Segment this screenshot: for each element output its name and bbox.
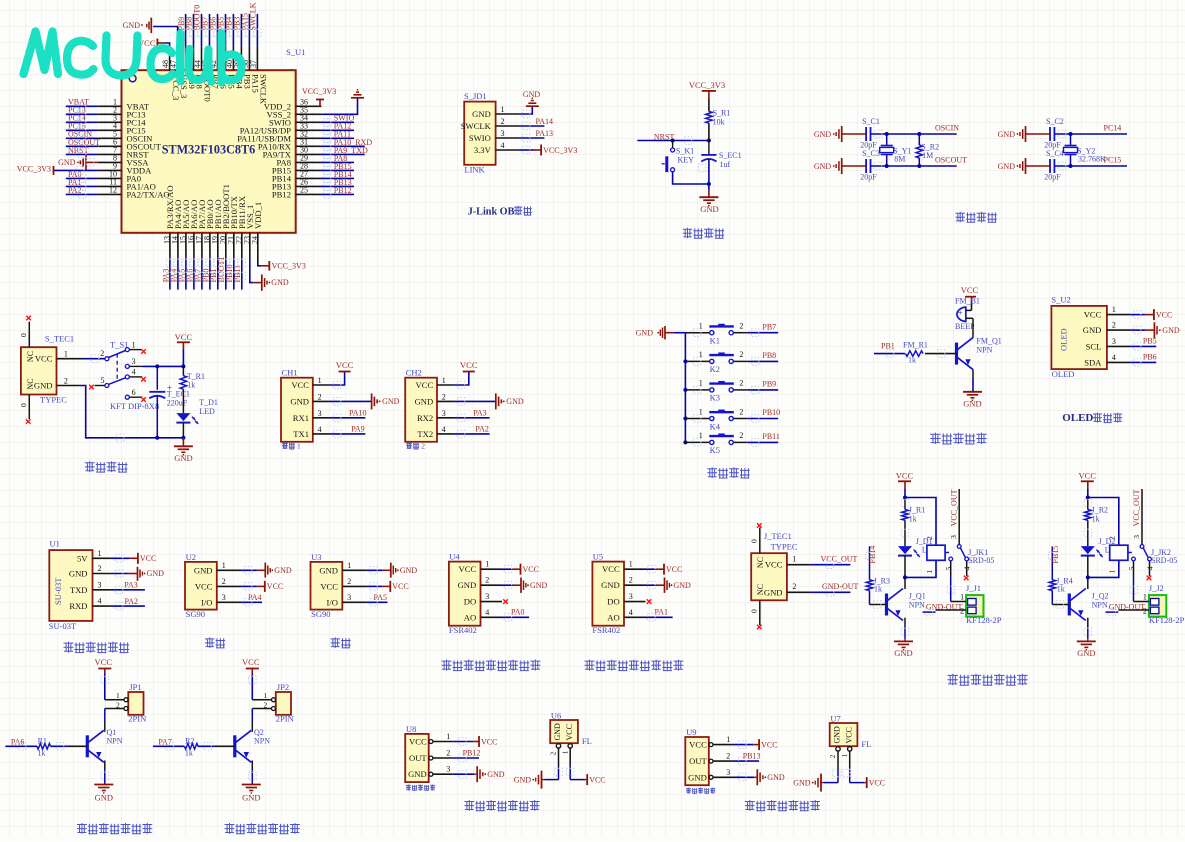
svg-text:1: 1 [1112,305,1116,314]
svg-text:PA1: PA1 [655,608,669,617]
svg-text:Q1: Q1 [107,728,117,737]
svg-text:VCC: VCC [523,565,539,574]
ground U5 [646,578,692,593]
wire net PB12 [453,748,481,758]
svg-text:1k: 1k [874,584,882,593]
svg-text:GND: GND [767,773,785,782]
svg-text:PA2/TX/AO: PA2/TX/AO [127,189,170,199]
ground xtal1 bottom rail [814,158,842,174]
svg-text:SG90: SG90 [311,609,330,619]
MCUclub logo [24,32,242,83]
svg-text:S_EC1: S_EC1 [719,151,742,160]
label receiver type U8 [406,784,435,792]
svg-text:NC: NC [26,351,35,362]
svg-text:U8: U8 [406,724,416,734]
ground relay J_Q2 [1077,618,1096,658]
capacitor S_C2 20pF [1026,117,1064,150]
svg-text:2: 2 [726,752,730,761]
svg-text:220uF: 220uF [167,399,188,408]
title servo 1 [205,637,225,648]
svg-text:GND: GND [793,778,811,787]
svg-text:PC14: PC14 [1104,124,1122,133]
wire net PA4 [241,593,262,602]
svg-text:1: 1 [501,105,505,114]
svg-text:GND: GND [530,581,548,590]
power VCC_3V3 reset [689,80,725,111]
svg-text:OLED: OLED [1059,328,1069,351]
svg-text:5: 5 [101,376,105,385]
label TYPEC relay [771,542,798,552]
crystal S_Y1 8M [880,132,912,168]
ground at pin47 VSS_3 [123,18,178,47]
svg-text:GND: GND [95,792,113,802]
svg-text:5V: 5V [77,553,88,563]
svg-text:GND: GND [58,158,76,167]
svg-text:J_J1: J_J1 [966,583,981,593]
svg-text:2: 2 [100,349,104,358]
power VCC U4 [502,564,539,575]
svg-text:GND-OUT: GND-OUT [822,582,859,591]
wire net PB14 [868,546,877,580]
ground buzzer [963,378,982,408]
svg-text:PA9: PA9 [351,425,365,434]
svg-text:U2: U2 [186,552,196,562]
svg-text:OUT: OUT [689,756,707,766]
wire PA13 [519,129,553,138]
svg-text:RXD: RXD [69,601,87,611]
wire U6 pin1 [569,748,571,780]
svg-text:VCC: VCC [1156,310,1172,319]
svg-text:GND: GND [400,566,418,575]
resistor FM_R1 1k wire PB1 [874,341,957,365]
pushbutton K2 net PB8 [685,350,778,374]
svg-text:GND: GND [506,397,524,406]
ground U2 [241,563,292,578]
svg-text:VCC_3V3: VCC_3V3 [272,261,306,270]
svg-text:PB8: PB8 [762,351,776,360]
svg-text:4: 4 [485,608,489,617]
wire U7 pin1 [849,751,851,783]
connector S_TEC1 body [21,347,57,394]
svg-text:1: 1 [726,735,730,744]
ground at S_JD1 pin1 [519,90,540,114]
power VCC_3V3 at VDD_1 pin24 [258,261,306,271]
svg-text:1: 1 [264,691,268,700]
svg-text:RX1: RX1 [293,413,309,423]
MCU right net wires+labels [321,114,372,195]
svg-text:KEY: KEY [678,156,695,165]
svg-text:U1: U1 [50,539,60,549]
svg-text:37: 37 [249,60,258,68]
svg-text:GND: GND [833,726,842,744]
power VCC U1 [111,553,156,564]
wire collector [104,709,106,731]
svg-text:3: 3 [98,580,102,589]
svg-text:PA14: PA14 [536,117,554,126]
svg-text:VCC: VCC [896,471,914,481]
svg-text:K2: K2 [710,364,720,374]
svg-text:SCL: SCL [1086,341,1102,351]
capacitor S_C4 20pF [1026,149,1064,182]
svg-text:U3: U3 [311,552,321,562]
svg-text:U5: U5 [593,552,603,562]
svg-text:KF128-2P: KF128-2P [966,615,1002,625]
svg-text:K5: K5 [710,445,720,455]
pushbutton K1 net PB7 [685,322,778,346]
svg-text:2: 2 [739,322,743,331]
title UV disinfection 2 [225,823,300,834]
MCU bottom pins 13-24 [162,184,263,265]
svg-text:4: 4 [501,141,505,150]
svg-text:1: 1 [222,561,226,570]
power VCC U3 [367,581,409,592]
svg-text:I/O: I/O [327,597,338,607]
svg-text:1: 1 [347,561,351,570]
svg-text:OSCOUT: OSCOUT [935,156,967,165]
svg-text:SRD-05: SRD-05 [1151,556,1177,565]
svg-text:2PIN: 2PIN [128,714,146,724]
title relay control circuit [948,674,1028,686]
title button circuit [707,467,750,478]
title crystal circuit [956,212,997,223]
ground U8 [453,766,505,782]
svg-text:S_U1: S_U1 [286,47,305,57]
svg-text:VCC: VCC [666,565,682,574]
resistor J_R4 1k [1049,576,1073,604]
ground button bus [636,326,686,339]
svg-text:1: 1 [629,560,633,569]
title J-Link OB interface [468,206,532,218]
LED J_D2 [1081,537,1121,579]
title power circuit [85,461,128,472]
wire PA14 [519,117,553,126]
wire net PB13 [733,752,761,762]
svg-text:3: 3 [501,129,505,138]
svg-text:VCC: VCC [416,380,434,390]
svg-text:PB5: PB5 [1143,337,1157,346]
svg-text:0: 0 [19,403,28,407]
wire net PA7 [153,737,185,746]
module U2 SG90 body+pins [185,552,241,619]
svg-text:VCC_3V3: VCC_3V3 [17,164,51,173]
ground xtal2 top rail [998,126,1026,142]
svg-text:PA2: PA2 [125,597,139,606]
svg-text:NC: NC [756,557,765,568]
svg-text:FSR402: FSR402 [449,625,477,635]
svg-text:NPN: NPN [107,737,123,746]
svg-text:PA3: PA3 [473,408,487,417]
svg-text:U9: U9 [686,727,696,737]
svg-text:S_K1: S_K1 [676,147,694,156]
MCU bottom net wires+labels [161,257,242,290]
svg-text:2: 2 [485,576,489,585]
switch T_S1 [89,340,146,402]
svg-text:OLED: OLED [1052,369,1075,379]
svg-text:TYPEC: TYPEC [40,395,67,405]
title servo 2 [331,637,351,648]
designator J_TEC1 [764,531,792,541]
svg-text:3: 3 [1112,337,1116,346]
svg-text:1k: 1k [1057,584,1065,593]
title serial port 2 [406,442,425,451]
label OLED [1052,369,1075,379]
svg-text:GND: GND [636,329,654,338]
svg-text:VCC: VCC [175,332,193,342]
capacitor T_EC1 220uF [149,366,190,439]
module U5 FSR402 body+pins [592,552,645,636]
MCU left net wires+labels [66,98,100,195]
power VCC UV JP1 [95,657,113,700]
power VCC U7 [850,777,885,788]
svg-text:AO: AO [607,612,619,622]
wire PB5 [1130,337,1156,347]
svg-text:1: 1 [960,593,964,602]
resistor T_R1 1k [180,366,205,413]
svg-text:OLED: OLED [1062,412,1093,424]
button bus vertical wire [683,333,687,445]
svg-text:U7: U7 [830,713,840,723]
svg-text:1: 1 [561,750,569,754]
title UV disinfection 1 [77,823,152,834]
svg-text:VCC_OUT: VCC_OUT [949,489,958,526]
svg-text:PB7: PB7 [762,322,776,331]
svg-text:S_C2: S_C2 [1046,117,1064,126]
power VCC UV JP2 [242,657,260,700]
S_TEC1 bottom pin no-connect [19,395,30,424]
power VCC CH2 [454,360,478,385]
svg-text:2: 2 [739,350,743,359]
wire switch to VCC node [142,364,185,368]
svg-text:2PIN: 2PIN [276,714,294,724]
power VCC OLED [1130,309,1172,320]
power VCC_3V3 at VDDA pin9 [17,164,99,175]
svg-text:4: 4 [98,597,102,606]
power VCC U2 [241,581,283,592]
svg-text:GND: GND [1077,648,1095,658]
svg-text:FM_B1: FM_B1 [955,296,980,305]
svg-text:JP1: JP1 [129,682,141,692]
svg-text:2: 2 [739,407,743,416]
S_U2 pins 1-4 [1083,305,1131,367]
svg-text:SWCLK: SWCLK [259,74,269,105]
svg-text:3: 3 [222,593,226,602]
wire VCC_OUT [787,555,858,565]
power VCC_3V3 at S_JD1 pin4 [519,145,577,156]
svg-text:PB1: PB1 [881,341,895,350]
svg-text:1uf: 1uf [720,160,731,169]
svg-text:SWCLK: SWCLK [249,2,258,30]
power VCC U6 [570,774,605,785]
svg-text:VCC: VCC [1084,310,1102,320]
power VCC relay J_Q1 [896,471,914,500]
svg-text:PA4: PA4 [248,593,262,602]
svg-text:GND: GND [1083,325,1102,335]
svg-text:GND: GND [998,130,1016,139]
svg-text:GND: GND [472,109,491,119]
wire net PA2 [454,425,490,434]
svg-text:J-Link OB: J-Link OB [468,206,515,217]
ground U1 [111,567,164,581]
power VCC U9 [733,739,778,750]
svg-text:25: 25 [300,186,308,195]
designator S_TEC1 [45,334,74,344]
svg-text:R2: R2 [185,736,194,745]
power VCC buzzer [961,285,979,310]
svg-text:3: 3 [726,768,730,777]
svg-text:1: 1 [318,376,322,385]
svg-text:J_R1: J_R1 [909,506,925,515]
S_TEC1 pin2 wire [57,376,184,438]
svg-text:VCC: VCC [140,554,156,563]
svg-text:GND: GND [894,648,912,658]
svg-text:3: 3 [446,765,450,774]
svg-text:PB15: PB15 [1051,546,1060,564]
ground U6 [514,771,559,789]
svg-text:T_R1: T_R1 [187,372,205,381]
U1 pins 1-4 [69,549,111,611]
svg-text:VCC: VCC [459,564,477,574]
svg-text:NPN: NPN [976,345,992,354]
svg-text:TX2: TX2 [417,429,433,439]
svg-text:PA13: PA13 [536,129,554,138]
LED T_D1 [176,398,217,440]
svg-text:S_U2: S_U2 [1051,295,1070,305]
svg-text:U4: U4 [449,552,460,562]
value STM32F103C8T6 [162,142,255,156]
svg-text:20pF: 20pF [860,173,877,182]
MCU top pins 48-37 [161,47,269,105]
svg-text:CH2: CH2 [406,368,422,378]
capacitor S_C1 20pF [842,117,880,150]
svg-text:1: 1 [116,691,120,700]
svg-text:GND: GND [290,396,309,406]
ground OLED [1130,322,1180,338]
op-amp U1 body: STM32 chip S_U1 yellow box [122,70,296,233]
svg-text:SDA: SDA [1084,357,1102,367]
svg-text:2: 2 [829,754,837,758]
svg-text:SWIO: SWIO [469,133,491,143]
title voice recognition module [64,642,130,653]
svg-text:2: 2 [264,701,268,710]
svg-text:VCC: VCC [765,560,783,570]
module U3 SG90 body+pins [311,552,367,619]
svg-text:S_R1: S_R1 [713,109,731,118]
svg-text:1: 1 [98,549,102,558]
svg-text:SU-03T: SU-03T [53,577,63,605]
capacitor S_C3 20pF [842,149,880,182]
svg-text:RX2: RX2 [417,413,433,423]
svg-text:2: 2 [98,564,102,573]
svg-text:PA3: PA3 [124,581,138,590]
module U7 IR emitter FL body+pins [829,713,871,758]
LED J_D1 [898,537,938,579]
svg-text:VCC: VCC [195,581,213,591]
wire net PC15 [1054,156,1127,166]
title IR switch 2 [745,800,820,811]
ground CH1 [330,393,400,409]
svg-text:Q2: Q2 [254,728,264,737]
svg-text:4: 4 [442,425,446,434]
svg-text:GND: GND [242,792,260,802]
svg-text:4: 4 [629,608,633,617]
svg-text:I/O: I/O [201,597,212,607]
svg-text:PB10: PB10 [762,408,780,417]
svg-text:5: 5 [1127,566,1136,570]
svg-text:PB14: PB14 [868,546,877,564]
transistor J_Q1 NPN [887,577,926,620]
svg-text:VCC: VCC [869,778,885,787]
S_TEC1 top pin no-connect [19,316,31,348]
svg-text:1k: 1k [37,748,45,757]
wire net PA10 [330,408,367,417]
svg-text:LED: LED [199,407,215,416]
svg-text:SG90: SG90 [186,609,205,619]
svg-text:2: 2 [739,431,743,440]
power VCC_3V3 at VDD_2 pin36 [302,87,336,106]
svg-text:24: 24 [250,236,259,244]
wire U7 pin2 [837,751,839,783]
svg-text:3: 3 [949,535,958,539]
relay J_JK1 SRD-05 [905,489,994,602]
svg-text:GND: GND [174,453,192,463]
svg-text:J_R2: J_R2 [1092,506,1108,515]
power VCC relay J_Q2 [1079,471,1097,500]
svg-text:GND: GND [523,90,541,99]
svg-text:VCC: VCC [320,581,338,591]
ground reset [699,197,718,214]
svg-text:12: 12 [109,186,117,195]
svg-text:6: 6 [132,388,136,397]
resistor S_R2 1M [916,132,939,168]
ground relay J_Q1 [894,618,913,658]
svg-text:2: 2 [792,582,796,591]
svg-text:T_D1: T_D1 [199,398,218,407]
svg-text:GND-OUT: GND-OUT [1109,602,1146,611]
label LINK [464,164,485,174]
J_TEC1 top pin no-connect [750,523,762,553]
svg-text:VCC: VCC [336,360,354,370]
svg-text:3: 3 [442,409,446,418]
svg-text:0: 0 [750,609,759,613]
svg-text:VCC: VCC [1079,471,1097,481]
S_TEC1 pin1 wire [57,350,105,359]
svg-text:PA7: PA7 [158,737,172,746]
svg-text:LINK: LINK [464,164,485,174]
svg-text:3: 3 [318,409,322,418]
svg-text:1: 1 [841,753,849,757]
svg-text:VCC: VCC [267,582,283,591]
connector CH2 body+pins [405,368,454,442]
wire net PA0 [502,608,529,618]
svg-text:GND: GND [271,278,289,287]
svg-text:2: 2 [446,749,450,758]
svg-text:GND: GND [319,565,338,575]
ground UV JP1 [94,761,113,803]
wire collector [251,709,253,731]
svg-text:K4: K4 [710,421,721,431]
wire net PA5 [367,593,388,602]
svg-text:0: 0 [19,333,28,337]
svg-text:S_C1: S_C1 [862,117,880,126]
wire net PC14 [1054,124,1127,134]
svg-text:2: 2 [347,577,351,586]
wire PB6 [1130,353,1156,363]
svg-text:FL: FL [861,739,871,749]
svg-text:32.768K: 32.768K [1078,155,1106,164]
pushbutton K3 net PB9 [685,379,778,403]
svg-text:2: 2 [550,751,558,755]
svg-text:VCC_OUT: VCC_OUT [821,555,858,564]
